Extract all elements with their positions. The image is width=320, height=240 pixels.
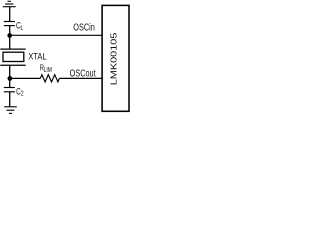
ground GND bottom: [4, 107, 17, 114]
wire resistor to OSCout pin: [59, 77, 101, 79]
node A junction dot: [7, 33, 12, 38]
svg-text:XTAL: XTAL: [28, 51, 47, 62]
wire node B to resistor: [10, 77, 40, 79]
svg-text:LIM: LIM: [44, 66, 52, 74]
svg-text:LMK00105: LMK00105: [110, 33, 119, 86]
wire C2 to ground: [9, 92, 11, 107]
wire C1 to node A: [9, 26, 11, 49]
svg-text:2: 2: [21, 90, 24, 98]
svg-text:1: 1: [20, 25, 23, 32]
IC U1 LMK00105 box: [102, 5, 129, 111]
capacitor C2: [4, 86, 24, 98]
svg-text:OSCout: OSCout: [70, 67, 96, 78]
svg-text:OSCin: OSCin: [73, 21, 95, 32]
node B junction dot: [7, 76, 12, 81]
crystal Y1 XTAL: [0, 49, 47, 65]
capacitor C1: [4, 20, 23, 32]
wire ground to C1: [9, 7, 11, 22]
wire crystal to node B: [9, 65, 11, 87]
wire node A to OSCin pin: [10, 34, 102, 36]
ground GND top: [3, 1, 16, 6]
resistor RLIM: [40, 64, 60, 82]
